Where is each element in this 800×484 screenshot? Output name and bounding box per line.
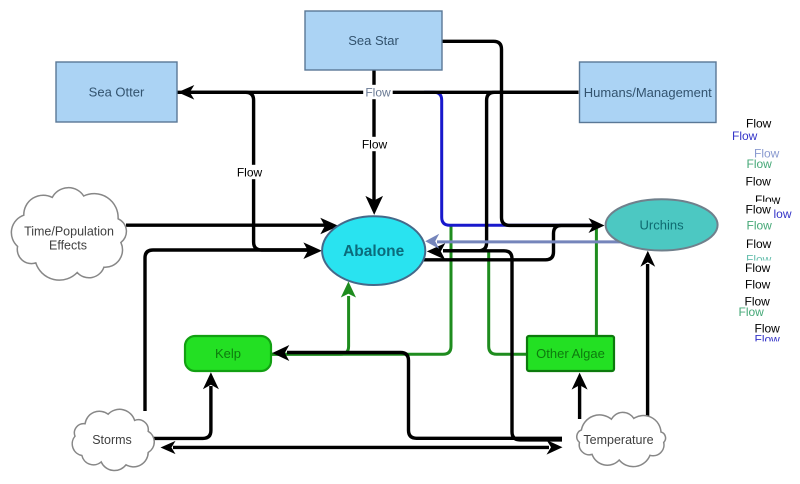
label Flow on Sea Star-Abalone (black) [360,137,390,151]
label Flow on Sea Otter-Abalone (black) [235,165,264,179]
wire slate Urchins to Abalone with arrow [437,240,621,243]
wire blue Sea Star to Urchins [424,92,600,225]
ellipse Abalone [322,216,425,285]
svg-text:Flow: Flow [237,165,263,179]
svg-text:Urchins: Urchins [640,218,685,233]
label Flow on Sea Star-Sea Otter crossing (slate) [363,85,393,99]
wire Temperature to Abalone via x512 with arrow [443,251,562,440]
wire Sea Star to Abalone (vertical x374) [372,70,375,203]
svg-text:Flow: Flow [745,261,771,275]
svg-text:Flow: Flow [362,137,388,151]
box Sea Otter [56,62,177,122]
wire green Other Algae to Abalone via x488.7 [489,250,528,354]
svg-text:Flow: Flow [746,237,772,251]
cloud Temperature [577,412,666,466]
wire green Kelp to Urchins via x451 [270,224,451,354]
wire Sea Otter to Abalone via x253 [178,92,311,250]
wire green Kelp to Abalone bottom (food flow) [270,296,349,354]
svg-text:Flow: Flow [745,278,771,292]
svg-text:Humans/Management: Humans/Management [584,85,712,100]
wire Temperature to Urchins with arrow [646,264,649,419]
wire Temperature to Other Algae with arrow [578,383,581,419]
wire Abalone to Urchins via x553.5 with arrow [422,225,595,259]
svg-text:Kelp: Kelp [215,346,241,361]
wire Sea Star right elbow to Urchins via x501.5 [442,41,595,225]
wire Humans/Management to Abalone via x486.6 [443,92,579,251]
ellipse Urchins [606,199,718,250]
wire Temperature to Storms with arrow [173,446,549,449]
svg-text:Abalone: Abalone [343,243,405,260]
cloud Storms [72,409,154,470]
cloud Time/Population Effects [11,188,126,280]
box Other Algae (green) [527,336,614,371]
wire green Other Algae to Urchins [595,228,598,337]
svg-text:Storms: Storms [92,433,132,447]
svg-text:Other Algae: Other Algae [536,346,605,361]
svg-text:Sea Star: Sea Star [348,33,399,48]
wire Storms to Abalone via x145 [145,250,310,411]
svg-text:Flow: Flow [746,174,772,188]
svg-text:Temperature: Temperature [583,433,653,447]
box Sea Star [305,11,442,70]
svg-text:Flow: Flow [365,85,391,99]
box Humans/Management [580,62,717,123]
svg-text:Flow: Flow [739,305,765,319]
svg-text:Effects: Effects [49,239,87,253]
svg-text:Flow: Flow [747,218,773,232]
wire Humans/Management to Sea Otter with arrow [191,91,579,94]
svg-text:Sea Otter: Sea Otter [89,85,145,100]
svg-text:Flow: Flow [746,202,772,216]
labels Flow right column [743,116,775,130]
wire Time/Population Effects to Abalone [126,223,326,226]
svg-text:Flow: Flow [732,129,758,143]
svg-text:low: low [774,207,792,221]
box Kelp (green rounded) [185,336,271,371]
wire Kelp-Temperature channel with arrows both ends [287,353,562,439]
wire Storms to Kelp with arrow [152,386,211,438]
svg-text:Time/Population: Time/Population [24,225,114,239]
svg-text:Flow: Flow [747,157,773,171]
